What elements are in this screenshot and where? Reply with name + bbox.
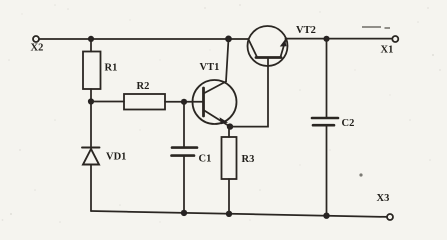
wire: C2 lower lead — [326, 126, 328, 216]
stray scan dash above X1 — [362, 27, 390, 28]
node: VT1 collector junction on rail — [225, 36, 232, 43]
node: R1 top junction — [88, 36, 94, 42]
svg-text:VT1: VT1 — [200, 62, 220, 73]
wire: VD1 upper lead — [90, 102, 92, 148]
svg-text:R2: R2 — [137, 81, 150, 92]
node: R1/R2/VD1 junction — [88, 98, 94, 104]
node: C1 top junction — [181, 99, 187, 105]
wire: VD1 lower lead to bottom rail — [90, 165, 92, 212]
capacitor C2 — [312, 118, 338, 125]
wire: C1 upper lead — [183, 102, 185, 147]
wire: R1 bottom lead to base node — [90, 89, 92, 102]
terminal X1 — [392, 36, 398, 42]
stray scan dot right of R3 — [359, 173, 362, 176]
node: C2 bottom junction — [323, 213, 329, 219]
wire: top rail from X2 to VT2 collector — [40, 38, 249, 40]
node: R3 bottom junction — [226, 211, 232, 217]
wire: R2 right to VT1 base — [165, 101, 204, 103]
wire: C2 upper lead — [326, 39, 328, 117]
diode VD1 (zener) — [82, 148, 100, 165]
svg-text:X3: X3 — [377, 193, 390, 204]
wire: emitter node to VT2 base — [230, 58, 268, 127]
wire: top rail from VT2 emitter to X1 — [286, 38, 392, 40]
node: C1 bottom junction — [181, 210, 187, 216]
resistor R1 — [83, 52, 101, 90]
svg-text:VT2: VT2 — [296, 25, 316, 36]
svg-text:C2: C2 — [342, 118, 355, 129]
node: VT1 emitter / R3 / VT2 base junction — [227, 123, 233, 129]
capacitor C1 — [172, 148, 198, 156]
transistor VT2 — [248, 26, 288, 66]
wire: bottom rail — [91, 211, 387, 217]
svg-text:X2: X2 — [31, 43, 44, 54]
svg-text:R1: R1 — [105, 63, 118, 74]
terminal X3 — [387, 214, 393, 220]
wire: VT1 emitter node to R3 — [228, 127, 230, 137]
svg-text:VD1: VD1 — [106, 152, 126, 163]
resistor R3 — [222, 137, 237, 179]
svg-text:R3: R3 — [242, 154, 255, 165]
node: C2 junction on rail — [323, 36, 329, 42]
svg-text:C1: C1 — [199, 154, 212, 165]
wire: R3 bottom lead — [228, 179, 230, 214]
transistor VT1 — [193, 39, 237, 127]
resistor R2 — [124, 94, 165, 110]
wire: R1 top lead — [90, 39, 92, 52]
terminal X2 — [33, 36, 39, 42]
svg-text:X1: X1 — [381, 45, 394, 56]
wire: node to R2 left — [91, 101, 124, 103]
wire: C1 lower lead to bottom rail — [183, 156, 185, 213]
